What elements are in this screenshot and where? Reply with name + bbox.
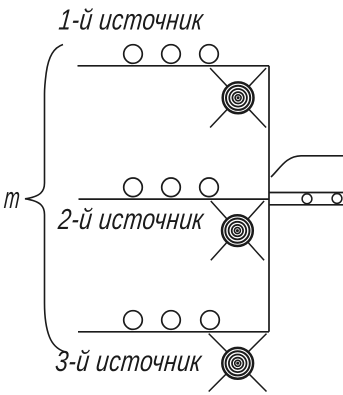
line 3 bbox=[78, 331, 269, 333]
roll symbol 1 cross bbox=[210, 68, 266, 127]
output ball 2 bbox=[332, 194, 342, 204]
roll symbol 3 coil bbox=[222, 348, 253, 379]
node ball 2 on line 1 bbox=[162, 45, 181, 64]
svg-text:m: m bbox=[3, 182, 21, 215]
node ball 1 on line 3 bbox=[124, 311, 143, 330]
output ramp curve bbox=[271, 156, 343, 177]
svg-text:3-й источник: 3-й источник bbox=[54, 346, 204, 378]
output channel bottom wire bbox=[269, 204, 343, 206]
node ball 2 on line 3 bbox=[162, 311, 181, 330]
node ball 3 on line 3 bbox=[201, 311, 220, 330]
roll symbol 2 coil bbox=[222, 215, 253, 246]
node ball 1 on line 2 bbox=[124, 178, 143, 197]
svg-text:2-й источник: 2-й источник bbox=[56, 204, 206, 236]
output channel top wire bbox=[269, 192, 343, 194]
line 2 bbox=[79, 198, 270, 200]
roll symbol 1 coil bbox=[223, 82, 254, 113]
svg-text:1-й источник: 1-й источник bbox=[57, 5, 205, 37]
node ball 2 on line 2 bbox=[162, 178, 181, 197]
line 1 bbox=[78, 65, 270, 67]
node ball 3 on line 2 bbox=[200, 178, 219, 197]
brace m bbox=[25, 45, 64, 352]
roll symbol 3 cross bbox=[209, 334, 267, 392]
wire right vertical edge bbox=[268, 66, 270, 332]
output ball 1 bbox=[302, 194, 312, 204]
node ball 1 on line 1 bbox=[124, 45, 143, 64]
roll symbol 2 cross bbox=[211, 201, 264, 260]
node ball 3 on line 1 bbox=[200, 45, 219, 64]
